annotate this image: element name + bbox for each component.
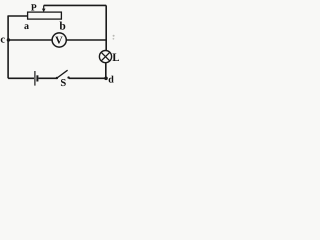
svg-text:d: d: [108, 74, 114, 85]
svg-text:P: P: [31, 4, 37, 14]
svg-text:c: c: [0, 35, 5, 46]
svg-text:b: b: [59, 20, 65, 32]
svg-text:V: V: [55, 36, 63, 47]
svg-text:S: S: [60, 78, 66, 89]
svg-text:a: a: [24, 21, 29, 32]
svg-text:L: L: [112, 52, 119, 64]
